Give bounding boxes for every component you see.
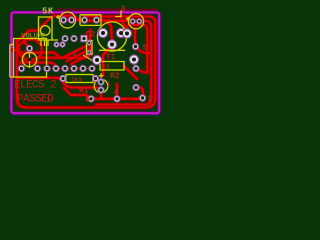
svg-text:VOLUME: VOLUME	[22, 33, 46, 41]
svg-text:ELECS 2: ELECS 2	[14, 80, 56, 92]
svg-text:R1: R1	[79, 87, 89, 96]
svg-text:4: 4	[114, 89, 119, 98]
svg-text:6: 6	[85, 96, 90, 105]
svg-text:T1: T1	[106, 53, 116, 62]
svg-text:PASSED: PASSED	[17, 94, 54, 106]
svg-text:C2: C2	[86, 31, 96, 40]
svg-text:C1: C1	[102, 64, 110, 71]
svg-text:1k1: 1k1	[71, 77, 82, 84]
svg-text:2: 2	[147, 95, 152, 104]
svg-text:5: 5	[143, 44, 148, 53]
svg-text:R2: R2	[110, 72, 120, 81]
svg-text:5K: 5K	[42, 7, 54, 17]
svg-text:8: 8	[73, 51, 77, 59]
svg-text:3: 3	[121, 5, 126, 14]
svg-text:1: 1	[107, 82, 111, 90]
